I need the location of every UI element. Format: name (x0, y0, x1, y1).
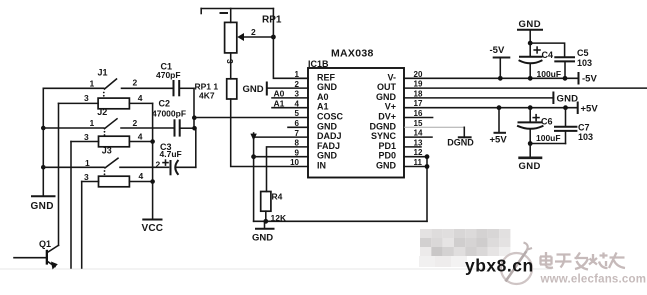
svg-text:DGND: DGND (447, 137, 474, 147)
svg-text:10: 10 (290, 158, 299, 167)
node DADJ-pin9 junction (251, 154, 256, 159)
wire IC pin 14 SYNC stub (404, 136, 432, 138)
svg-text:4K7: 4K7 (199, 91, 215, 101)
net label -5V right end (579, 73, 598, 85)
node C7 top junction (563, 105, 568, 110)
svg-text:GND: GND (519, 161, 541, 172)
capacitor C6 100uF polarized (518, 108, 561, 144)
wire IC pin 9 GND (254, 156, 308, 158)
ic left pin names (317, 72, 344, 170)
capacitor C5 103 (555, 48, 592, 79)
power VCC (142, 220, 164, 234)
node C5 bottom junction (563, 76, 568, 81)
wire 4K7 down to IC pin 10 IN (231, 99, 308, 167)
svg-text:100uF: 100uF (537, 69, 562, 79)
svg-text:9: 9 (295, 148, 300, 157)
svg-text:103: 103 (577, 58, 592, 68)
svg-text:2: 2 (133, 118, 138, 128)
wire IC pin 17 V+ rail (404, 107, 578, 109)
svg-text:GND: GND (557, 94, 579, 105)
node pin11 junction (425, 164, 430, 169)
wire IC pin 19 OUT to edge (404, 87, 647, 89)
svg-text:ybx8.cn: ybx8.cn (465, 256, 534, 276)
svg-text:2: 2 (251, 27, 256, 37)
svg-text:COSC: COSC (317, 112, 344, 122)
svg-text:REF: REF (317, 72, 336, 82)
svg-text:Q1: Q1 (39, 239, 51, 249)
svg-text:103: 103 (578, 132, 593, 142)
wire IC pin 8 FADJ to R4 (267, 147, 309, 192)
svg-text:A1: A1 (274, 98, 285, 108)
wire IC pin 20 V- rail (404, 77, 579, 79)
net label GND on IC pin 2 (243, 83, 309, 96)
net label A1 on IC pin 4 (272, 98, 308, 108)
svg-text:4.7uF: 4.7uF (160, 149, 182, 159)
svg-text:FADJ: FADJ (317, 141, 340, 151)
svg-text:19: 19 (414, 80, 423, 89)
svg-text:3: 3 (295, 90, 300, 99)
wire IC pin 7 DADJ riser with arrow (250, 133, 308, 221)
wire IC pin 15 DGND (404, 126, 464, 128)
ic right pin names (370, 72, 397, 170)
svg-text:PD0: PD0 (378, 151, 396, 161)
power -5V (490, 45, 511, 78)
svg-text:A1: A1 (317, 102, 329, 112)
svg-text:8: 8 (295, 139, 300, 148)
ic right pin stubs and numbers (414, 70, 423, 167)
net label A0 on IC pin 3 (272, 89, 308, 99)
resistor under J2 (pins 3-4) (71, 132, 153, 147)
wire IC pins 12 PD0 and 11 GND tied to GND bus (404, 157, 427, 222)
ground GND bottom middle (252, 221, 274, 243)
svg-text:47000pF: 47000pF (152, 109, 186, 119)
svg-text:4: 4 (138, 93, 143, 103)
svg-text:20: 20 (414, 70, 423, 79)
node RP1 wiper junction (271, 35, 276, 40)
svg-text:4: 4 (295, 99, 300, 108)
svg-text:V-: V- (387, 72, 396, 82)
switch J1 (43, 68, 173, 97)
svg-text:GND: GND (252, 233, 273, 244)
potentiometer RP1 (201, 9, 282, 79)
svg-text:J3: J3 (102, 146, 112, 156)
svg-text:5: 5 (295, 109, 300, 118)
resistor under J3 (pins 3-4) (82, 171, 153, 187)
wire J3R pin3 rail down (81, 182, 83, 269)
svg-text:GND: GND (519, 19, 542, 30)
svg-text:+5V: +5V (581, 104, 599, 115)
capacitor C4 100uF polarized (520, 43, 562, 79)
svg-text:C2: C2 (159, 99, 171, 109)
capacitor C3 4.7uF polarized (160, 142, 196, 174)
ground GND top above C4 (518, 19, 542, 43)
ground GND left rail (31, 196, 55, 212)
node R4 bottom junction (263, 219, 268, 224)
net label +5V right end (578, 103, 599, 115)
svg-text:15: 15 (414, 119, 423, 128)
node VCC-J2R junction (150, 139, 155, 144)
svg-text:IC1B: IC1B (308, 59, 329, 69)
wire J1R pin3 to Q1 collector rail (58, 103, 60, 245)
svg-text:RP1: RP1 (262, 15, 282, 26)
svg-text:A0: A0 (274, 89, 285, 99)
svg-text:IN: IN (317, 161, 326, 171)
svg-text:DGND: DGND (370, 121, 397, 131)
wire wiper node to IC pin 1 REF (273, 9, 308, 79)
svg-text:2: 2 (295, 80, 300, 89)
svg-text:1: 1 (295, 70, 300, 79)
wire VCC rail from J resistors (152, 103, 154, 218)
svg-text:R4: R4 (272, 192, 283, 202)
svg-text:-5V: -5V (582, 74, 597, 85)
svg-text:C7: C7 (578, 123, 590, 133)
svg-text:C5: C5 (577, 48, 589, 58)
svg-text:J1: J1 (98, 68, 108, 78)
ic IC1B MAX038 body (308, 48, 404, 178)
svg-text:7: 7 (295, 129, 300, 138)
svg-text:SYNC: SYNC (371, 131, 397, 141)
svg-text:GND: GND (243, 84, 264, 95)
transistor Q1 (14, 239, 59, 270)
scan edge line (bottom of scanned area) (0, 268, 552, 270)
wire J2R pin3 rail down (70, 142, 72, 269)
svg-text:DV+: DV+ (378, 112, 396, 122)
watermark chinese characters (stroke approximation) (540, 252, 625, 270)
wire IC pin 16 DV+ stub (404, 117, 433, 119)
svg-text:A0: A0 (317, 92, 329, 102)
resistor R4 12K (261, 192, 287, 224)
svg-text:3: 3 (84, 93, 89, 103)
switch J3 (43, 146, 168, 176)
svg-text:1: 1 (90, 79, 95, 89)
node VCC-J3R junction (150, 179, 155, 184)
svg-text:GND: GND (31, 201, 54, 212)
power +5V (490, 108, 508, 146)
svg-text:13: 13 (414, 138, 423, 147)
svg-text:GND: GND (376, 92, 397, 102)
svg-text:2: 2 (133, 78, 138, 88)
resistor R1 4K7 (RP1 series) (195, 79, 237, 101)
svg-text:1: 1 (90, 118, 95, 128)
node C6 top junction (528, 105, 533, 110)
svg-text:+5V: +5V (490, 135, 508, 146)
svg-text:MAX038: MAX038 (331, 48, 374, 60)
node C6 bottom junction (528, 141, 533, 146)
node pin12 junction (425, 154, 430, 159)
svg-text:V+: V+ (385, 102, 396, 112)
node -5V stem junction (498, 76, 503, 81)
wire left GND rail (42, 88, 44, 195)
svg-text:GND: GND (376, 161, 397, 171)
svg-text:18: 18 (414, 89, 423, 98)
wire IC pin 5 COSC (194, 117, 308, 119)
capacitor C7 103 (555, 108, 593, 144)
ic left pin stubs and numbers (288, 70, 308, 167)
switch J2 (43, 107, 174, 136)
node COSC C2 junction (192, 126, 197, 131)
node rail-J3 junction (41, 165, 46, 170)
svg-text:4: 4 (138, 132, 143, 142)
capacitor C2 47000pF (152, 99, 195, 136)
wire C6 bottom to C7 bottom (530, 143, 565, 145)
node rail-J2 junction (41, 126, 46, 131)
capacitor C1 470pF (156, 62, 194, 96)
svg-text:100uF: 100uF (536, 133, 561, 143)
svg-text:17: 17 (414, 99, 423, 108)
svg-text:-5V: -5V (490, 45, 505, 56)
svg-text:C4: C4 (542, 50, 554, 60)
svg-text:DADJ: DADJ (317, 131, 342, 141)
svg-text:3: 3 (84, 172, 89, 182)
svg-text:www.elecfans.com: www.elecfans.com (540, 274, 647, 286)
svg-text:11: 11 (414, 158, 423, 167)
svg-text:PD1: PD1 (378, 141, 396, 151)
ground DGND (447, 127, 474, 147)
svg-text:3: 3 (84, 132, 89, 142)
wire GND top to C5 (530, 43, 564, 57)
svg-text:GND: GND (317, 151, 338, 161)
svg-text:J2: J2 (97, 107, 107, 117)
svg-text:16: 16 (414, 109, 423, 118)
svg-text:4: 4 (139, 171, 144, 181)
svg-text:VCC: VCC (142, 223, 164, 234)
wire IC pin 18 GND with net label (404, 93, 578, 105)
watermark mosaic block (419, 229, 510, 267)
node COSC pin5 junction (192, 115, 197, 120)
wire COSC node vertical rail (194, 88, 196, 167)
ground GND below C6 (518, 144, 542, 172)
svg-text:6: 6 (295, 119, 300, 128)
wire bottom GND bus (254, 220, 427, 222)
svg-text:14: 14 (414, 129, 423, 138)
resistor under J1 (pins 3-4) (59, 93, 153, 109)
node C4 bottom junction (528, 76, 533, 81)
watermark elecfans logo circle (501, 243, 532, 285)
svg-text:GND: GND (317, 82, 338, 92)
svg-text:470pF: 470pF (156, 70, 181, 80)
wire IC pin 13 PD1 stub (404, 146, 421, 148)
node GND top junction (528, 41, 533, 46)
svg-text:2: 2 (156, 160, 161, 170)
svg-text:1: 1 (85, 158, 90, 168)
node +5V stem junction (497, 105, 502, 110)
svg-text:OUT: OUT (377, 82, 397, 92)
svg-text:GND: GND (317, 121, 338, 131)
svg-text:12: 12 (414, 148, 423, 157)
